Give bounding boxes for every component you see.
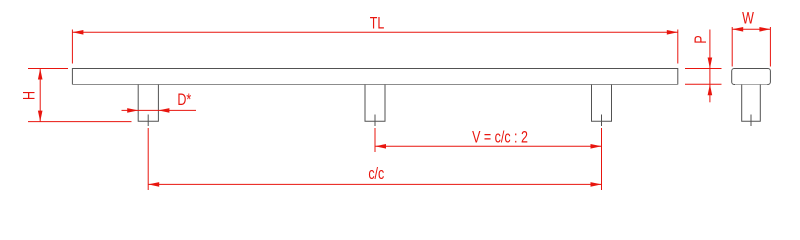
dimension P line bbox=[709, 30, 711, 103]
dimension W extension line left bbox=[731, 27, 733, 67]
bar front view bbox=[72, 69, 677, 85]
dimension TL line bbox=[72, 31, 677, 33]
dimension W extension line right bbox=[769, 27, 771, 67]
svg-text:D*: D* bbox=[177, 91, 191, 109]
dimension D* arrow left (points right at post edge) bbox=[127, 108, 138, 113]
dimension P extension line top bbox=[685, 68, 722, 70]
end view post bbox=[742, 85, 761, 122]
svg-text:P: P bbox=[692, 35, 710, 43]
dimension P arrow up bbox=[708, 84, 713, 95]
post 1 centerline tick bbox=[147, 115, 149, 127]
dimension V arrow right bbox=[591, 144, 602, 149]
dimension V extension line at post 2 bbox=[374, 128, 376, 152]
dimension H line bbox=[39, 69, 41, 122]
post 3 bbox=[592, 85, 612, 122]
dimension D* arrow right (points left at post edge) bbox=[158, 108, 169, 113]
dimension TL arrow left bbox=[72, 30, 83, 35]
svg-text:H: H bbox=[21, 91, 39, 100]
dimension W arrow right bbox=[759, 27, 770, 32]
svg-text:V = c/c : 2: V = c/c : 2 bbox=[472, 129, 528, 147]
svg-text:W: W bbox=[742, 10, 755, 28]
dimension H arrow down bbox=[38, 111, 43, 122]
dimension c/c extension line at post 1 bbox=[147, 128, 149, 190]
svg-text:TL: TL bbox=[370, 15, 385, 33]
dimension V arrow left bbox=[375, 144, 386, 149]
end view bar bottom edge lightening bbox=[735, 84, 767, 86]
shared extension line at post 3 bbox=[601, 128, 603, 190]
svg-text:c/c: c/c bbox=[368, 165, 384, 183]
dimension W line bbox=[732, 28, 770, 30]
dimension V line bbox=[375, 145, 602, 147]
dimension P arrow down bbox=[708, 58, 713, 69]
dimension H extension line top bbox=[28, 68, 68, 70]
post 2 bbox=[365, 85, 385, 122]
end view centerline tick bbox=[750, 115, 752, 127]
bar front view bottom edge bbox=[72, 84, 677, 86]
dimension H arrow up bbox=[38, 69, 43, 80]
dimension c/c arrow right bbox=[591, 182, 602, 187]
post 2 centerline tick bbox=[374, 115, 376, 127]
post 1 bbox=[138, 85, 158, 122]
dimension c/c arrow left bbox=[148, 182, 159, 187]
dimension TL extension line left bbox=[71, 30, 73, 64]
dimension TL arrow right bbox=[667, 30, 678, 35]
dimension P extension line bottom bbox=[685, 83, 722, 85]
post 3 centerline tick bbox=[601, 115, 603, 127]
end view bar bbox=[732, 69, 771, 85]
dimension H extension line bottom bbox=[28, 121, 132, 123]
dimension c/c line bbox=[148, 183, 601, 185]
dimension W arrow left bbox=[732, 27, 743, 32]
dimension D* line bbox=[122, 109, 197, 111]
dimension TL extension line right bbox=[677, 30, 679, 64]
